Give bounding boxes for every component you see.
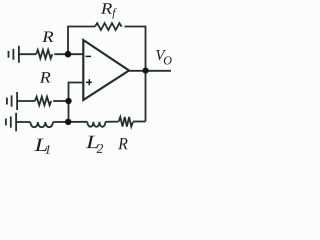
svg-text:R: R — [100, 1, 113, 18]
svg-text:R: R — [41, 29, 54, 46]
svg-text:R: R — [117, 134, 128, 153]
svg-text:2: 2 — [97, 141, 104, 156]
svg-text:O: O — [163, 53, 172, 67]
svg-text:1: 1 — [45, 142, 52, 157]
svg-text:R: R — [39, 70, 51, 87]
svg-text:f: f — [112, 7, 117, 19]
